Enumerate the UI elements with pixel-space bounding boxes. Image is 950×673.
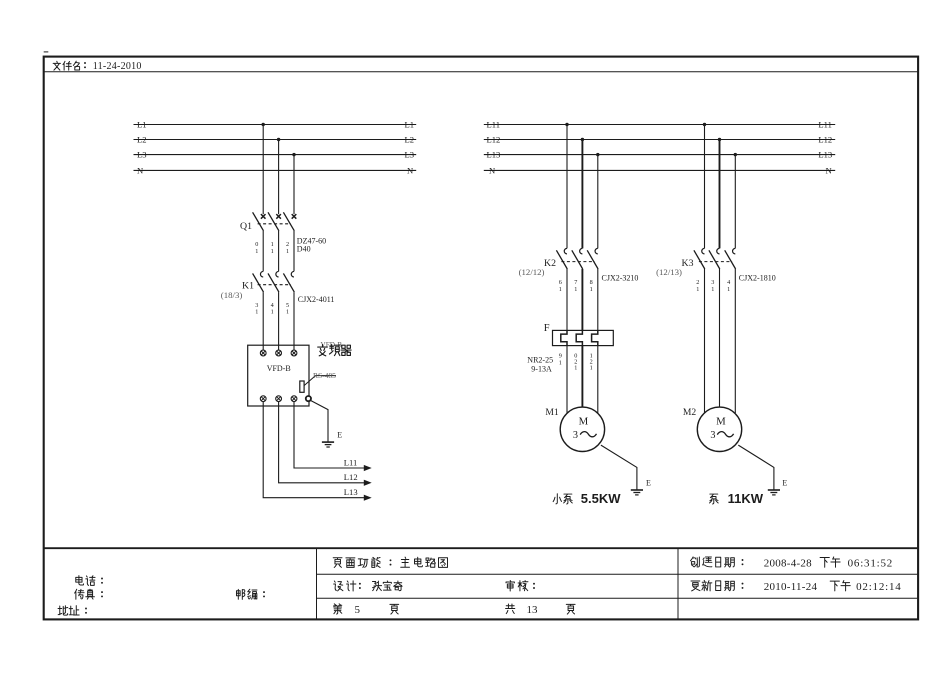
wire bus to K2 poles [566, 125, 568, 249]
wire VFD ground terminal to earth [310, 400, 329, 442]
node junction L1-Q1 [262, 123, 265, 126]
svg-text:L11: L11 [344, 457, 358, 467]
wire bus to Q1 pole1 [262, 125, 264, 215]
svg-text:L1: L1 [137, 120, 147, 130]
svg-text:1: 1 [696, 286, 699, 293]
svg-text:L11: L11 [487, 120, 501, 130]
thermal overload relay F box [553, 330, 614, 345]
node junction L3-Q1 [292, 153, 295, 156]
svg-text:L1: L1 [405, 120, 415, 130]
wire L13 bus right [484, 154, 835, 156]
wire N bus left [134, 169, 417, 171]
svg-text:L13: L13 [487, 150, 501, 160]
motor M1 circle [560, 407, 604, 451]
wire VFD out U to L11 arrow [294, 402, 365, 468]
wire L2 bus left [134, 139, 417, 141]
wire Q1 to K1 pole3 [293, 231, 295, 272]
svg-text:RS-485: RS-485 [313, 371, 336, 380]
wire bus to Q1 pole3 [293, 155, 295, 215]
svg-text:(18/3): (18/3) [221, 290, 243, 300]
VFD output terminals [260, 396, 297, 402]
svg-text:06:31:52: 06:31:52 [848, 557, 894, 569]
arrow L11 [364, 466, 370, 471]
wire L12 bus right [484, 139, 835, 141]
wire K1 to VFD pole2 [278, 292, 280, 350]
svg-text:K1: K1 [242, 281, 254, 292]
title block row line 1 [317, 573, 919, 575]
wire K1 to VFD pole3 [293, 292, 295, 350]
phone label [76, 576, 95, 586]
arrow L13 [364, 495, 370, 500]
svg-text:L11: L11 [818, 120, 832, 130]
wire K2 to F poles [566, 269, 568, 330]
updated date label [691, 580, 734, 590]
svg-text:L2: L2 [405, 135, 415, 145]
K2 pin numbers [559, 279, 593, 293]
node junction L2-Q1 [277, 138, 280, 141]
VFD earth terminal [306, 396, 311, 401]
wire VFD out W to L13 arrow [263, 402, 364, 498]
title bar separator line [44, 71, 918, 73]
node junctions K2 [565, 123, 568, 126]
svg-text:M2: M2 [683, 407, 697, 418]
svg-text:N: N [137, 165, 144, 175]
wire L11 bus right [484, 124, 835, 126]
contactor K2 [556, 248, 598, 269]
svg-text:1: 1 [559, 286, 562, 293]
ground symbol M2 [768, 489, 780, 491]
svg-text:3: 3 [710, 430, 715, 441]
M2 name label [710, 494, 719, 504]
contactor K3 [694, 248, 736, 269]
svg-text:1: 1 [574, 286, 577, 293]
svg-text:3: 3 [573, 430, 578, 441]
fax label [75, 589, 95, 599]
svg-text:NR2-25: NR2-25 [527, 355, 553, 364]
RS-485 leader line [304, 376, 336, 386]
breaker Q1 [253, 212, 297, 231]
svg-text:1: 1 [590, 286, 593, 293]
title block vertical divider 1 [316, 548, 318, 619]
svg-text:1: 1 [559, 359, 562, 366]
svg-text:1: 1 [711, 286, 714, 293]
svg-text:2010-11-24: 2010-11-24 [764, 581, 818, 593]
svg-text:L12: L12 [818, 135, 832, 145]
svg-text:1: 1 [271, 248, 274, 255]
svg-text:E: E [337, 430, 342, 439]
inverter name label [318, 345, 351, 356]
ground symbol VFD [322, 441, 334, 443]
designer label [334, 581, 356, 591]
node junctions K3 [703, 123, 706, 126]
svg-text:VFD-B: VFD-B [267, 364, 291, 373]
left bus labels [137, 120, 414, 176]
wire VFD out V to L12 arrow [279, 402, 365, 483]
wire bus to Q1 pole2 [278, 140, 280, 215]
svg-text:13: 13 [527, 604, 539, 616]
wire N bus right [484, 169, 835, 171]
svg-text:11KW: 11KW [728, 491, 764, 506]
K3 pin numbers [696, 279, 730, 293]
svg-text:1: 1 [271, 309, 274, 316]
svg-text:L12: L12 [487, 135, 501, 145]
corner tick mark [44, 51, 49, 53]
svg-text:L13: L13 [344, 487, 358, 497]
svg-text:L2: L2 [137, 135, 147, 145]
svg-text:K3: K3 [682, 258, 694, 269]
zip label [236, 589, 256, 599]
svg-text:5: 5 [355, 604, 361, 616]
contactor K1 [253, 271, 295, 292]
page function label [333, 557, 380, 567]
inverter VFD-B box [248, 345, 309, 406]
wire Q1 to K1 pole1 [262, 231, 264, 272]
svg-text:K2: K2 [544, 258, 556, 269]
title block row line 2 [317, 597, 919, 599]
wire K3 to M2 [704, 269, 706, 414]
wire M2 to earth [738, 445, 774, 490]
svg-text:CJX2-3210: CJX2-3210 [602, 273, 639, 282]
reviewer label [506, 581, 528, 591]
svg-text:E: E [646, 479, 651, 488]
svg-text:L3: L3 [405, 150, 415, 160]
svg-text:1: 1 [286, 309, 289, 316]
wire bus to K3 poles [704, 125, 706, 249]
title block vertical divider 2 [677, 548, 679, 619]
wire Q1 to K1 pole2 [278, 231, 280, 272]
svg-text:02:12:14: 02:12:14 [856, 581, 902, 593]
svg-text:L3: L3 [137, 150, 147, 160]
svg-text:L13: L13 [818, 150, 832, 160]
svg-text:11-24-2010: 11-24-2010 [93, 61, 142, 72]
RS-485 port rectangle [300, 381, 304, 392]
wire K1 to VFD pole1 [262, 292, 264, 350]
Q1 pin numbers [255, 241, 289, 255]
F pin numbers [559, 353, 593, 372]
svg-text:F: F [544, 323, 550, 334]
svg-text:M1: M1 [545, 407, 559, 418]
svg-text:CJX2-4011: CJX2-4011 [298, 295, 335, 304]
svg-text:Q1: Q1 [240, 221, 252, 232]
svg-text:E: E [782, 479, 787, 488]
svg-text:CJX2-1810: CJX2-1810 [739, 273, 776, 282]
ground symbol M1 [631, 489, 643, 491]
arrow L12 [364, 480, 370, 485]
border frame [44, 57, 918, 620]
VFD input terminals [260, 350, 297, 356]
svg-text:D40: D40 [297, 244, 311, 253]
svg-text:9-13A: 9-13A [531, 364, 552, 373]
page number row [334, 604, 342, 614]
address label [58, 606, 79, 616]
file name label [53, 61, 79, 70]
svg-text:1: 1 [590, 364, 593, 371]
svg-text:5.5KW: 5.5KW [581, 491, 621, 506]
F heater elements [561, 330, 598, 345]
svg-text:L12: L12 [344, 472, 358, 482]
wire L3 bus left [134, 154, 417, 156]
svg-text:(12/13): (12/13) [656, 267, 682, 277]
wire M1 to earth [601, 445, 637, 490]
svg-text:1: 1 [574, 364, 577, 371]
right bus labels [487, 120, 833, 176]
svg-text:1: 1 [286, 248, 289, 255]
svg-text:1: 1 [727, 286, 730, 293]
svg-text:N: N [489, 165, 496, 175]
created date label [690, 557, 734, 567]
svg-text:2008-4-28: 2008-4-28 [764, 557, 812, 569]
title block top border [44, 547, 918, 549]
motor M2 circle [697, 407, 741, 451]
M1 name label [553, 494, 572, 504]
svg-text:N: N [407, 165, 414, 175]
svg-text:1: 1 [255, 248, 258, 255]
svg-text:(12/12): (12/12) [519, 267, 545, 277]
svg-text:1: 1 [255, 309, 258, 316]
svg-text:M: M [579, 416, 589, 428]
K1 pin numbers [255, 302, 289, 316]
svg-text:N: N [826, 165, 833, 175]
svg-text:M: M [716, 416, 726, 428]
wire F to M1 [566, 346, 568, 414]
wire L1 bus left [134, 124, 417, 126]
